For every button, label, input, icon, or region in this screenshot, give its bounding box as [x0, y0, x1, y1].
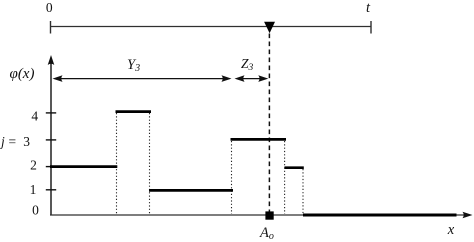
- x-axis arrowhead: [463, 212, 473, 219]
- short step segment at level 2: [285, 166, 304, 169]
- timeline right end tick at t: [370, 21, 372, 34]
- step segment at level 1: [149, 189, 233, 192]
- svg-text:4: 4: [31, 108, 38, 123]
- step segment at level 0 (on axis): [303, 214, 457, 217]
- y tick at level 4: [46, 112, 56, 114]
- y-axis arrowhead: [48, 55, 55, 65]
- x-axis (horizontal): [50, 214, 467, 216]
- timeline left end tick at 0: [50, 21, 52, 34]
- top timeline from 0 to t: [51, 26, 372, 28]
- step segment at level 2: [50, 165, 117, 168]
- interval arrow Z3 (double headed): [237, 78, 266, 80]
- step segment at level 4: [116, 110, 152, 113]
- svg-text:x: x: [447, 222, 455, 238]
- dotted vertical at x=149.5 (jump 4 to 1): [149, 113, 151, 214]
- arrival instant marker: filled down triangle: [264, 22, 275, 34]
- y tick at level 1: [46, 189, 56, 191]
- interval arrow Y3 (double headed): [55, 78, 229, 80]
- dotted vertical at x=116.5 (jump 2 to 4): [116, 113, 118, 214]
- dotted vertical at x=303 (jump 2 to 0): [302, 169, 304, 214]
- svg-text:1: 1: [30, 182, 37, 197]
- step segment at level 3: [231, 138, 287, 141]
- svg-text:2: 2: [30, 158, 37, 173]
- filled square marker at A_o: [265, 211, 273, 219]
- y tick at level 3: [46, 139, 56, 141]
- y tick at level 2: [46, 166, 56, 168]
- svg-text:0: 0: [46, 0, 53, 15]
- svg-text:j=3: j=3: [0, 134, 30, 149]
- y-axis (vertical): [50, 62, 52, 216]
- dotted vertical at x=284.6 (jump 3 to 2): [284, 141, 286, 214]
- dotted vertical at x=231.5 (jump 1 to 3): [231, 141, 233, 214]
- svg-text:φ(x): φ(x): [10, 66, 35, 82]
- dashed vertical line at arrival epoch A_o: [268, 34, 270, 215]
- svg-text:0: 0: [32, 202, 39, 217]
